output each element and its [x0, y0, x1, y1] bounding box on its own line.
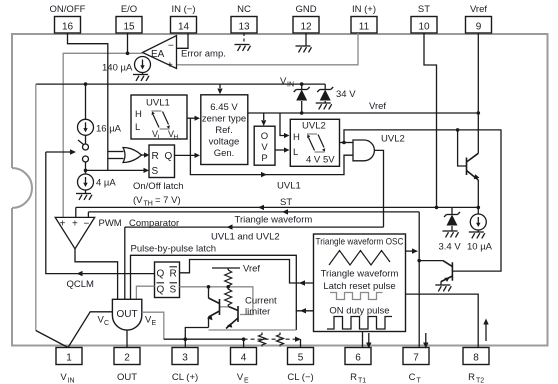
arrow on UVL1 line [261, 172, 267, 177]
svg-text:Q: Q [157, 269, 165, 280]
svg-text:T: T [417, 378, 422, 384]
svg-text:Q: Q [165, 151, 173, 162]
svg-text:IN (−): IN (−) [171, 4, 195, 15]
svg-text:ON/OFF: ON/OFF [50, 4, 86, 15]
op-amp EA (error amplifier) [143, 36, 177, 69]
wire resistor node to limiter bases [220, 306, 229, 308]
svg-text:OUT: OUT [117, 372, 137, 383]
label VIN at rail [280, 76, 294, 89]
arrow current up at pin8 [483, 319, 488, 342]
svg-text:Error amp.: Error amp. [181, 49, 226, 60]
svg-text:L: L [293, 147, 298, 158]
wire ON-duty vertical lower segment [295, 311, 297, 330]
Triangle waveform OSC box [314, 234, 406, 332]
svg-text:ST: ST [280, 197, 292, 208]
svg-text:Vref: Vref [470, 4, 487, 15]
svg-text:E: E [244, 378, 249, 384]
wire AND output down to UVL1-and-UVL2 bus [375, 150, 384, 227]
label Pulse-by-pulse latch [131, 244, 217, 255]
svg-text:13: 13 [238, 22, 250, 33]
arrow on ON-duty stub [300, 308, 306, 313]
svg-text:PWM: PWM [99, 218, 122, 229]
transistor Q2 (PNP discharge) [441, 261, 452, 282]
svg-text:UVL2: UVL2 [381, 134, 405, 145]
label On/Off latch [133, 181, 184, 192]
label QCLM [67, 279, 95, 290]
switch SW1 [78, 140, 89, 162]
label Current limiter [245, 296, 277, 318]
svg-text:+: + [60, 219, 66, 230]
wire UVL1 and UVL2 bus [125, 226, 384, 228]
svg-text:16: 16 [62, 22, 74, 33]
wire PWM output to OUT block [75, 249, 118, 299]
svg-text:Pulse-by-pulse latch: Pulse-by-pulse latch [131, 244, 217, 255]
svg-text:5V: 5V [323, 155, 335, 166]
AND gate U4 [353, 140, 374, 161]
svg-text:+: + [72, 219, 78, 230]
wire On/Off latch Q to 6.45V box with arrow [175, 153, 201, 158]
pin 6 (RT1) bottom [345, 348, 371, 384]
svg-text:3.4 V: 3.4 V [439, 242, 462, 253]
svg-text:limiter: limiter [245, 307, 270, 318]
current source 140uA [102, 57, 151, 74]
wire latch Qbar gray to OUT [136, 286, 154, 299]
wire CT vertical triangle waveform [418, 212, 420, 348]
junction CT node [417, 259, 421, 263]
wire pin15 E/O to EA output [126, 33, 130, 55]
svg-text:R: R [350, 372, 357, 383]
arrow UVL1 output to 6.45V box [187, 116, 200, 121]
wire pin5 up [300, 339, 302, 347]
junction Sbar at resistor divider [226, 285, 230, 289]
hysteresis glyph UVL1 [152, 111, 170, 129]
pin 13 (NC) [231, 4, 257, 33]
wire Q2 collector to CT node [419, 260, 443, 262]
svg-text:S: S [170, 285, 177, 296]
wire switch to 4uA node [84, 162, 88, 174]
pin 2 (OUT) bottom [114, 348, 140, 384]
svg-text:2: 2 [124, 353, 130, 364]
svg-text:CL (−): CL (−) [287, 372, 313, 383]
svg-text:4 V: 4 V [306, 155, 321, 166]
pin 7 (CT) bottom [403, 348, 429, 384]
wire OSC to RT2 pin8 [406, 294, 479, 347]
wire EA output gray to PWM input [63, 53, 142, 217]
wire Q1 emitter down to ST line [477, 180, 479, 214]
arrow OSC output to CT node [406, 248, 419, 253]
svg-text:voltage: voltage [209, 137, 240, 148]
svg-text:R: R [170, 269, 177, 280]
wire node to S input with arrow [86, 168, 150, 173]
svg-text:H: H [135, 109, 142, 120]
NC dashed ground at pin 13 [235, 33, 251, 51]
svg-text:NC: NC [237, 4, 251, 15]
svg-text:Latch reset pulse: Latch reset pulse [323, 281, 395, 292]
arrow QCLM control into switch [46, 149, 76, 154]
wire ST to PWM mid input [75, 207, 77, 217]
pin 16 (ON/OFF) [50, 4, 86, 33]
PWM comparator triangle [55, 217, 94, 248]
svg-text:Ref.: Ref. [215, 125, 232, 136]
wire VE line to pin4 [164, 339, 244, 347]
svg-text:−: − [84, 219, 90, 230]
wire UVL2 output to AND gate [340, 141, 354, 145]
svg-text:H: H [174, 134, 179, 141]
ground under Q2 emitter [435, 282, 451, 292]
svg-text:L: L [135, 122, 140, 133]
arrow current down at pin7 [423, 333, 428, 349]
svg-text:5: 5 [298, 353, 304, 364]
transistor Q4 (current limit right NPN) [226, 306, 238, 329]
svg-text:−: − [168, 41, 174, 52]
svg-text:ST: ST [418, 4, 430, 15]
svg-text:C: C [104, 320, 109, 327]
svg-text:16 µA: 16 µA [96, 124, 122, 135]
pin 14 (IN (−)) [171, 4, 197, 33]
svg-text:IN: IN [68, 378, 75, 384]
pin 5 (CL-) bottom [287, 348, 313, 384]
arrow on UVL1 and UVL2 bus [227, 224, 233, 229]
wire stubs into OR gate [108, 152, 124, 159]
pin 3 (CL+) bottom [172, 348, 198, 384]
label UVL1 and UVL2 [211, 232, 280, 243]
current source 4uA [78, 174, 117, 190]
junction emitter on ST line [477, 206, 481, 210]
svg-text:Triangle waveform: Triangle waveform [321, 269, 399, 280]
svg-text:6: 6 [355, 353, 361, 364]
svg-text:EA: EA [151, 49, 165, 60]
zener D1 VIN clamp [294, 82, 310, 115]
svg-text:O: O [261, 131, 268, 142]
label VE [145, 315, 157, 328]
wire UVL2 bus down to Q2 base [452, 130, 501, 271]
6.45V zener type Ref voltage Gen box U3 [201, 95, 248, 165]
On/Off latch box [149, 145, 175, 178]
svg-text:7: 7 [413, 353, 419, 364]
wire Q3 collector up to Sbar line [208, 287, 210, 298]
label Vref on rail [369, 101, 386, 112]
svg-text:R: R [152, 151, 159, 162]
pin 11 (IN (+)) [351, 4, 377, 33]
IC package body outline [12, 34, 548, 346]
wire pin9 Vref down [477, 33, 479, 153]
resistor R2 [225, 288, 232, 307]
zener D2 34V clamp [316, 84, 357, 109]
wire pin16 ON/OFF down and right [68, 33, 108, 170]
svg-text:= 7 V): = 7 V) [155, 195, 181, 206]
arrow Vref rail into OVP box [261, 113, 266, 126]
label Triangle waveform bus [235, 215, 313, 226]
wire IN(+) pin11 gray to EA plus input [177, 33, 358, 65]
label UVL1 [277, 181, 301, 192]
svg-text:T1: T1 [358, 378, 366, 384]
svg-text:34 V: 34 V [336, 89, 356, 100]
transistor Q3 (current limit left NPN) [209, 298, 220, 317]
svg-text:R: R [468, 372, 475, 383]
svg-text:CL (+): CL (+) [172, 372, 198, 383]
arrow on QCLM line [77, 271, 83, 276]
svg-text:H: H [293, 132, 300, 143]
wire QCLM line [46, 152, 155, 274]
junction pin3 at VE line [184, 337, 188, 341]
svg-text:8: 8 [473, 353, 479, 364]
svg-text:1: 1 [66, 353, 72, 364]
OR gate U2 (on/off latch reset) [123, 148, 142, 163]
svg-text:Comparator: Comparator [129, 218, 179, 229]
svg-text:GND: GND [295, 4, 316, 15]
svg-text:Triangle waveform: Triangle waveform [235, 215, 313, 226]
svg-text:L: L [158, 134, 162, 141]
svg-text:IN (+): IN (+) [352, 4, 376, 15]
svg-text:ON duty pulse: ON duty pulse [329, 306, 389, 317]
ground at pin 12 [296, 33, 312, 52]
pin 12 (GND) [293, 4, 319, 33]
svg-text:10 µA: 10 µA [467, 242, 493, 253]
svg-text:UVL1 and UVL2: UVL1 and UVL2 [211, 232, 280, 243]
svg-text:Triangle waveform OSC: Triangle waveform OSC [316, 237, 404, 248]
wire CL+ line from pin3 [185, 328, 208, 348]
svg-text:14: 14 [178, 22, 190, 33]
svg-text:E: E [152, 320, 157, 327]
wire latch Sbar gray to current limiter [180, 287, 253, 315]
svg-text:6.45 V: 6.45 V [210, 102, 238, 113]
wire 16uA to switch [85, 135, 87, 144]
svg-text:Current: Current [245, 296, 277, 307]
arrow on ST line [258, 205, 264, 210]
hysteresis glyph UVL2 [307, 134, 325, 152]
pulse-by-pulse latch box [155, 262, 180, 298]
arrow OVP output to UVL2 L input [275, 147, 290, 152]
svg-text:UVL1: UVL1 [146, 98, 170, 109]
ground under 140uA [133, 73, 149, 81]
external sense dashed line pin4 to pin5 [244, 338, 295, 340]
wire Q4 emitter line [209, 329, 297, 331]
arrow dashed into pin5 node [295, 337, 301, 342]
wire Vref rail [248, 112, 478, 114]
svg-text:+: + [167, 60, 173, 71]
wire VC from pin1 [68, 312, 112, 348]
resistor R1 [225, 270, 232, 287]
UVL1 box [131, 95, 187, 141]
external resistor RS2 [277, 333, 284, 347]
svg-text:C: C [409, 372, 416, 383]
wire UVL2 bus to Q1 base [458, 130, 467, 166]
junction pin4 on VE line [242, 337, 246, 341]
svg-text:On/Off latch: On/Off latch [133, 181, 184, 192]
wire ST bus line [76, 206, 479, 208]
label PWM Comparator [99, 218, 180, 229]
label VC [98, 315, 110, 328]
svg-text:10: 10 [418, 22, 430, 33]
svg-text:12: 12 [300, 22, 312, 33]
label (VTH = 7 V) [133, 195, 181, 208]
label Vref at tap [243, 264, 260, 275]
wire VIN rail [36, 83, 325, 85]
junction pin9 wire on Vref rail [477, 111, 481, 115]
pin 4 (VE) bottom [231, 348, 257, 384]
junction ST vertical on ST line [435, 206, 439, 210]
svg-text:T2: T2 [476, 378, 484, 384]
wire latch R input from OSC latch-reset [180, 260, 314, 284]
arrow on latch reset line [299, 280, 305, 285]
svg-text:E/O: E/O [121, 4, 137, 15]
wire UVL2 node up to UVL2 bus [344, 130, 502, 143]
wire pin14 to EA minus input [177, 33, 188, 48]
junction Q3 collector on Sbar [207, 285, 211, 289]
wire pin10 ST down [424, 33, 437, 207]
wire pin1 diagonal to VIN gray [36, 331, 68, 348]
UVL2 box [290, 119, 339, 166]
svg-text:V: V [60, 372, 67, 383]
svg-text:UVL2: UVL2 [302, 121, 326, 132]
current source 10uA [467, 214, 493, 253]
svg-text:(V: (V [133, 195, 143, 206]
wire VIN rail gray drop to pin1 [35, 84, 37, 330]
svg-text:Vref: Vref [369, 101, 386, 112]
svg-text:S: S [152, 166, 159, 177]
svg-text:3: 3 [182, 353, 188, 364]
wire OSC to RT1 pin6 [362, 332, 364, 348]
svg-text:4 µA: 4 µA [96, 178, 116, 189]
OVP box [254, 126, 275, 165]
svg-text:OUT: OUT [116, 309, 137, 320]
svg-text:140 µA: 140 µA [102, 63, 133, 74]
pin 9 (Vref) [466, 4, 492, 33]
latch reset pulse glyph [330, 293, 383, 300]
current source 16uA [78, 119, 122, 135]
svg-text:Gen.: Gen. [214, 148, 235, 159]
label UVL2 at AND gate [381, 134, 405, 145]
svg-text:V: V [261, 142, 268, 153]
wire triangle line to PWM minus input [87, 212, 89, 218]
svg-text:15: 15 [123, 22, 135, 33]
svg-text:V: V [280, 76, 287, 87]
svg-text:Q: Q [157, 285, 165, 296]
wire Triangle waveform bus [88, 211, 419, 213]
external resistor RS1 [259, 333, 266, 347]
svg-text:V: V [237, 372, 244, 383]
pin 10 (ST) [411, 4, 437, 33]
svg-text:TH: TH [144, 201, 153, 208]
pin 1 (VIN) bottom [56, 348, 82, 384]
transistor Q1 (soft start NPN) [467, 153, 479, 180]
wire ON-duty bus to OUT [131, 255, 314, 310]
svg-text:zener type: zener type [202, 114, 246, 125]
svg-text:IN: IN [287, 82, 294, 89]
svg-text:Vref: Vref [243, 264, 260, 275]
Vref tap T for current limiter [212, 268, 240, 270]
junction 16uA on VIN rail [84, 82, 88, 119]
arrow current down at pin6 [366, 333, 371, 349]
svg-text:9: 9 [476, 22, 482, 33]
arrow OR output into R [142, 152, 150, 157]
wire UVL1 line from ref area to AND gate [190, 118, 353, 174]
zener D3 3.4V [439, 207, 462, 252]
svg-text:4: 4 [241, 353, 247, 364]
wire OUT block to pin2 [126, 330, 128, 347]
ON duty pulse glyph [327, 317, 392, 330]
junction UVL2 bus [456, 128, 460, 132]
arrow on triangle waveform line [282, 209, 288, 214]
triangle wave glyph [329, 251, 390, 266]
svg-text:UVL1: UVL1 [277, 181, 301, 192]
OUT block driver [112, 299, 141, 330]
pin 8 (RT2) bottom [463, 348, 489, 384]
wire Q4 collector to resistor node [228, 306, 230, 308]
label ST [280, 197, 292, 208]
svg-text:11: 11 [359, 22, 370, 33]
wire UVL1-UVL2 bus down to OUT [124, 227, 126, 299]
arrow VIN rail into 6.45V box top [217, 84, 222, 94]
ground under 4uA [76, 190, 92, 200]
svg-text:QCLM: QCLM [67, 279, 95, 290]
svg-text:P: P [261, 153, 267, 164]
wire Vref to UVL2 H input with arrow [280, 113, 290, 138]
wire Q3 emitter down to CL+ line [208, 317, 210, 328]
wire VE gray to pin4 [142, 312, 164, 339]
pin 15 (E/O) [116, 4, 142, 33]
